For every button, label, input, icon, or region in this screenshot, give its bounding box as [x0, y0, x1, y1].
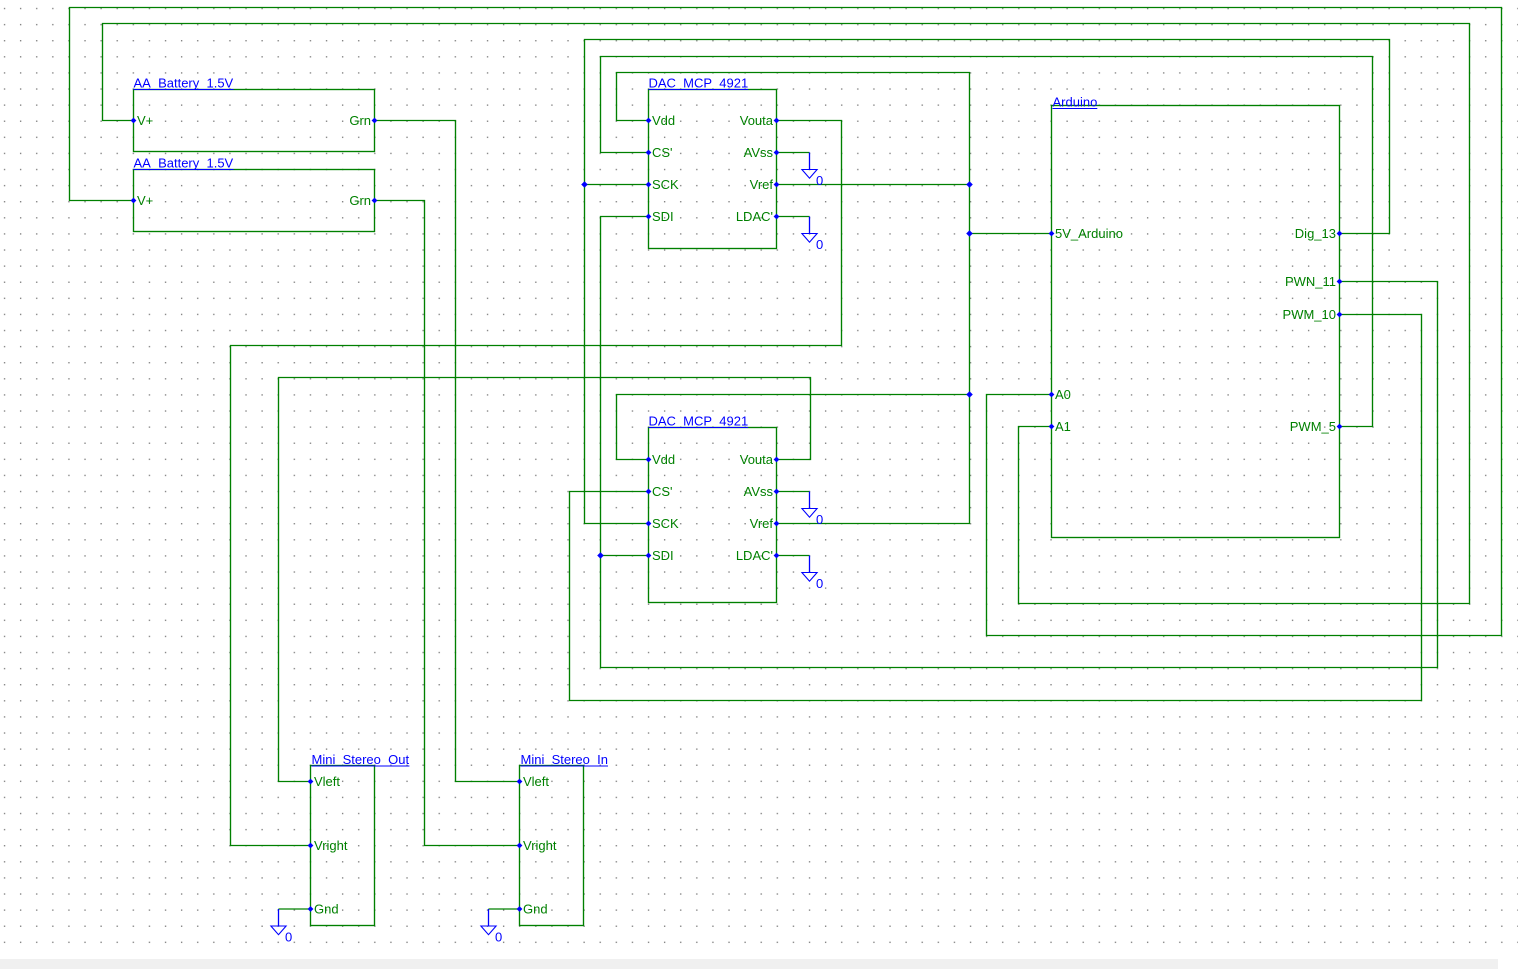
- ground 0 (Gnd J1): [271, 909, 292, 945]
- svg-text:0: 0: [816, 173, 823, 188]
- svg-text:V+: V+: [137, 113, 153, 128]
- svg-text:A0: A0: [1055, 387, 1071, 402]
- DAC U2 DAC_MCP_4921: [649, 428, 777, 603]
- svg-text:Vref: Vref: [750, 177, 774, 192]
- svg-text:Mini_Stereo_In: Mini_Stereo_In: [521, 752, 608, 767]
- pin Gnd (J2): [517, 902, 548, 917]
- pin SDI (U1): [646, 209, 674, 224]
- ground 0 (LDAC' U2): [802, 556, 823, 592]
- svg-text:LDAC': LDAC': [736, 548, 773, 563]
- pin A0: [1049, 387, 1071, 402]
- pin LDAC' (U1): [736, 209, 780, 224]
- pin Dig_13: [1295, 226, 1343, 241]
- svg-text:DAC_MCP_4921: DAC_MCP_4921: [649, 76, 749, 91]
- junction 5V rail / Vdd U2 branch: [966, 391, 973, 398]
- svg-text:A1: A1: [1055, 419, 1071, 434]
- pin Vdd (U1): [646, 113, 676, 128]
- pin SDI (U2): [646, 548, 674, 563]
- pin AVss (U2): [744, 484, 780, 499]
- pin CS' (U2): [646, 484, 673, 499]
- svg-text:0: 0: [285, 930, 292, 945]
- pin Vref (U2): [750, 516, 780, 531]
- svg-text:Vright: Vright: [314, 838, 348, 853]
- wire net Vouta (U2) to Vleft (J1): [279, 378, 811, 782]
- ground 0 (AVss U1): [802, 153, 823, 189]
- label DAC_MCP_4921 (U1): [649, 76, 749, 91]
- wire net 5V main run (Vdd U1 to Vref U2): [617, 73, 970, 524]
- pin Gnd (J1): [308, 902, 339, 917]
- svg-text:SCK: SCK: [652, 516, 679, 531]
- wire net Grn (B2) to Vright (J2): [375, 201, 520, 846]
- wire net Vouta (U1) to Vright (J1): [231, 121, 842, 846]
- pin AVss (U1): [744, 145, 780, 160]
- wire net CS' (U2) to PWM_10: [570, 315, 1422, 701]
- pin PWM_10: [1283, 307, 1343, 322]
- label Mini_Stereo_Out (J1): [312, 752, 410, 767]
- svg-text:CS': CS': [652, 145, 673, 160]
- DAC U1 DAC_MCP_4921: [649, 90, 777, 249]
- ground 0 (Gnd J2): [481, 909, 502, 945]
- svg-text:AVss: AVss: [744, 484, 774, 499]
- wire net SCK to Dig_13: [585, 40, 1390, 524]
- svg-text:0: 0: [816, 237, 823, 252]
- wire SDI stub to U2: [601, 555, 649, 557]
- pin Vouta (U1): [740, 113, 780, 128]
- svg-text:AA_Battery_1.5V: AA_Battery_1.5V: [134, 76, 234, 91]
- pin Vouta (U2): [740, 452, 780, 467]
- svg-text:Grn: Grn: [349, 193, 371, 208]
- svg-text:0: 0: [495, 930, 502, 945]
- pin Vref (U1): [750, 177, 780, 192]
- label AA_Battery_1.5V (B1): [134, 76, 234, 91]
- junction SDI rail / SDI U2: [597, 552, 604, 559]
- wire 5V stub 5V_Arduino: [970, 233, 1052, 235]
- svg-text:PWN_11: PWN_11: [1285, 274, 1336, 289]
- svg-text:AA_Battery_1.5V: AA_Battery_1.5V: [134, 156, 234, 171]
- svg-text:5V_Arduino: 5V_Arduino: [1055, 226, 1123, 241]
- pin SCK (U2): [646, 516, 679, 531]
- svg-text:PWM_5: PWM_5: [1290, 419, 1336, 434]
- svg-text:Vouta: Vouta: [740, 113, 774, 128]
- ground 0 (AVss U2): [802, 492, 823, 528]
- svg-text:0: 0: [816, 512, 823, 527]
- svg-text:PWM_10: PWM_10: [1283, 307, 1336, 322]
- svg-text:Vref: Vref: [750, 516, 774, 531]
- pin V+ (B2): [131, 193, 154, 208]
- svg-text:V+: V+: [137, 193, 153, 208]
- svg-text:CS': CS': [652, 484, 673, 499]
- wire stub LDAC' U1: [777, 216, 810, 218]
- svg-text:Mini_Stereo_Out: Mini_Stereo_Out: [312, 752, 410, 767]
- pin Vleft (J1): [308, 774, 341, 789]
- svg-text:AVss: AVss: [744, 145, 774, 160]
- pin SCK (U1): [646, 177, 679, 192]
- label AA_Battery_1.5V (B2): [134, 156, 234, 171]
- svg-text:0: 0: [816, 576, 823, 591]
- pin Grn (B1): [349, 113, 377, 128]
- svg-text:Vdd: Vdd: [652, 452, 675, 467]
- pin CS' (U1): [646, 145, 673, 160]
- ground 0 (LDAC' U1): [802, 217, 823, 253]
- svg-text:Arduino: Arduino: [1053, 95, 1098, 110]
- pin PWN_11: [1285, 274, 1342, 289]
- svg-text:SDI: SDI: [652, 209, 674, 224]
- junction 5V rail / Vref U1: [966, 181, 973, 188]
- wire net SDI to PWN_11: [601, 217, 1438, 668]
- wire stub AVss U2: [777, 491, 810, 493]
- wire stub LDAC' U2: [777, 555, 810, 557]
- pin V+ (B1): [131, 113, 154, 128]
- label Mini_Stereo_In (J2): [521, 752, 609, 767]
- svg-text:Vleft: Vleft: [314, 774, 340, 789]
- status bar strip: [0, 959, 1498, 969]
- svg-text:SCK: SCK: [652, 177, 679, 192]
- pin PWM_5: [1290, 419, 1343, 434]
- svg-text:Dig_13: Dig_13: [1295, 226, 1336, 241]
- svg-text:Vdd: Vdd: [652, 113, 675, 128]
- pin 5V_Arduino: [1049, 226, 1123, 241]
- svg-text:SDI: SDI: [652, 548, 674, 563]
- wire stub Gnd J1: [279, 908, 311, 910]
- junction SCK rail / SCK U1: [581, 181, 588, 188]
- svg-text:Vright: Vright: [523, 838, 557, 853]
- svg-text:Grn: Grn: [349, 113, 371, 128]
- svg-text:Gnd: Gnd: [523, 902, 548, 917]
- svg-text:DAC_MCP_4921: DAC_MCP_4921: [649, 414, 749, 429]
- wire net CS' (U1) to PWM_5: [601, 57, 1373, 427]
- pin Vright (J2): [517, 838, 557, 853]
- wire net Grn (B1) to Vleft (J2): [375, 121, 520, 782]
- pin Vdd (U2): [646, 452, 676, 467]
- wire SCK stub to U1: [585, 184, 649, 186]
- jack J2 Mini_Stereo_In: [520, 766, 584, 926]
- svg-text:Vleft: Vleft: [523, 774, 549, 789]
- battery B1 AA_Battery_1.5V: [134, 90, 375, 152]
- svg-text:LDAC': LDAC': [736, 209, 773, 224]
- label DAC_MCP_4921 (U2): [649, 414, 749, 429]
- pin Vright (J1): [308, 838, 348, 853]
- pin Grn (B2): [349, 193, 377, 208]
- jack J1 Mini_Stereo_Out: [311, 766, 375, 926]
- svg-text:Gnd: Gnd: [314, 902, 339, 917]
- pin Vleft (J2): [517, 774, 550, 789]
- wire 5V branch to Vdd U2: [617, 395, 970, 460]
- wire net V+ (B2) to A0 : outer loop: [70, 8, 1502, 636]
- pin LDAC' (U2): [736, 548, 780, 563]
- label Arduino: [1053, 95, 1098, 110]
- wire net V+ (B1) to A1: [103, 24, 1470, 604]
- Arduino module: [1052, 106, 1340, 538]
- svg-text:Vouta: Vouta: [740, 452, 774, 467]
- battery B2 AA_Battery_1.5V: [134, 170, 375, 232]
- pin A1: [1049, 419, 1071, 434]
- wire stub AVss U1: [777, 152, 810, 154]
- wire 5V stub Vref U1: [777, 184, 970, 186]
- wire stub Gnd J2: [489, 908, 520, 910]
- junction 5V rail / 5V_Arduino: [966, 230, 973, 237]
